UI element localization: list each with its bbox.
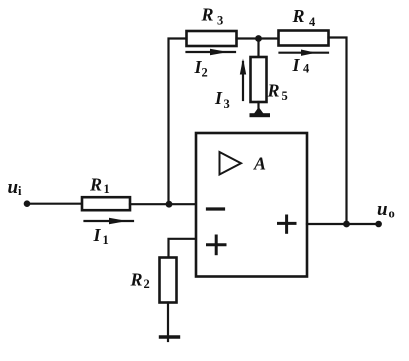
label u_o <box>377 199 395 220</box>
op-amp noninverting input plus sign <box>208 236 226 254</box>
svg-text:I: I <box>214 88 223 108</box>
wire R5 to ground <box>257 102 259 113</box>
svg-text:3: 3 <box>224 97 230 111</box>
resistor R5 <box>251 57 267 102</box>
label R2 <box>130 269 150 291</box>
wire R1 to inverting input <box>130 203 196 205</box>
svg-text:R: R <box>130 269 143 289</box>
op-amp A box <box>196 133 307 277</box>
terminal u_i <box>24 200 31 207</box>
current arrow I3 <box>240 59 246 101</box>
wire noninverting input and down to R2 <box>169 239 197 258</box>
svg-text:4: 4 <box>303 62 310 76</box>
resistor R1 <box>82 197 130 210</box>
svg-text:1: 1 <box>104 182 110 196</box>
label I4 <box>292 55 311 76</box>
svg-text:u: u <box>8 177 19 198</box>
label R5 <box>267 81 288 104</box>
svg-text:4: 4 <box>309 15 316 29</box>
terminal u_o <box>375 221 382 228</box>
current arrow I4 <box>280 50 329 56</box>
op-amp inverting input minus sign <box>208 207 224 210</box>
label I3 <box>214 88 230 111</box>
op-amp output plus sign <box>279 216 296 232</box>
label R4 <box>292 6 317 29</box>
svg-text:R: R <box>201 5 214 25</box>
resistor R2 <box>160 258 177 303</box>
svg-text:2: 2 <box>144 277 150 291</box>
label I1 <box>93 225 109 247</box>
ground (below R5) <box>250 107 271 117</box>
svg-text:3: 3 <box>217 14 223 28</box>
node junction R3/R4/R5 <box>255 35 262 42</box>
wire R3 to R4 <box>237 37 279 39</box>
wire R2 to ground <box>167 303 169 342</box>
svg-text:i: i <box>18 184 22 198</box>
wire output <box>307 223 378 225</box>
wire u_i to R1 <box>27 203 82 205</box>
svg-text:5: 5 <box>282 89 288 103</box>
wire R4 right down to output node <box>329 38 347 225</box>
op-amp triangle symbol <box>220 152 242 175</box>
current arrow I1 <box>85 218 134 224</box>
svg-text:I: I <box>292 55 301 75</box>
wire feedback left (inverting node up and over to R3) <box>169 39 187 205</box>
label u_i <box>8 177 23 198</box>
node inverting input <box>166 201 173 208</box>
current arrow I2 <box>187 49 236 55</box>
svg-text:R: R <box>292 6 305 26</box>
svg-text:R: R <box>267 81 280 101</box>
svg-text:R: R <box>89 175 102 195</box>
svg-text:1: 1 <box>103 233 109 247</box>
label I2 <box>194 57 208 80</box>
resistor R4 <box>279 31 329 46</box>
node output junction <box>343 221 350 228</box>
label R3 <box>201 5 224 28</box>
wire junction to R5 <box>257 39 259 58</box>
svg-text:u: u <box>377 199 388 220</box>
ground (below R2) <box>161 335 179 338</box>
resistor R3 <box>187 31 237 46</box>
label R1 <box>89 175 110 197</box>
svg-text:A: A <box>253 153 266 173</box>
svg-text:o: o <box>389 207 395 221</box>
svg-text:2: 2 <box>202 66 208 80</box>
svg-text:I: I <box>93 225 102 245</box>
